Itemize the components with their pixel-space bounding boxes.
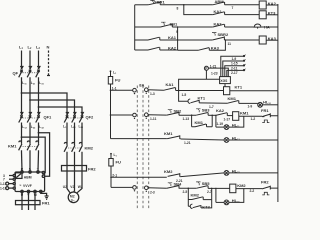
connector pin right row3 (145, 186, 149, 190)
junction on L3 (38, 106, 40, 108)
svg-text:2-17: 2-17 (231, 71, 238, 75)
svg-text:KA1: KA1 (168, 35, 177, 40)
svg-text:VVVF: VVVF (23, 184, 32, 188)
VFD ABM box (15, 172, 45, 192)
svg-text:FR1: FR1 (42, 201, 50, 206)
wire L3 QF1 to KM1 (38, 124, 40, 142)
wire L2 QF1 to KM1 (29, 124, 31, 142)
wire node8 down to row2 (184, 5, 213, 15)
wire FR2 to M2 2 (73, 171, 76, 192)
svg-text:KT1: KT1 (198, 95, 206, 100)
wire row5 node9 to KA3 hold (178, 49, 198, 51)
ground symbol (45, 196, 49, 199)
wire V to FR1 (28, 193, 30, 210)
svg-text:1-3: 1-3 (150, 92, 155, 96)
ABM terminal V (27, 190, 29, 192)
svg-text:SB4: SB4 (174, 182, 183, 187)
wire row4 lead (135, 39, 148, 41)
contactor KM1 pole 1 (19, 141, 22, 152)
contact KA2 (NO) (213, 12, 225, 15)
connector pin right row1 (145, 88, 149, 92)
svg-text:ABM: ABM (24, 176, 32, 180)
junction node 9 (177, 26, 179, 28)
svg-text:KM1: KM1 (8, 144, 17, 149)
panel boundary dashed line 3 (148, 86, 150, 211)
ABM terminal T (37, 171, 39, 173)
thermal contact FR1 (NC) (262, 113, 278, 117)
connector pin left row3 (133, 186, 137, 190)
contact KA2 (NO) (216, 113, 228, 116)
svg-text:1-7: 1-7 (209, 105, 214, 109)
junction left of SB5 (188, 188, 190, 190)
junction on L2 (29, 99, 31, 101)
wire branch feed 2 to QF2 (30, 100, 75, 113)
coil KA2 (259, 1, 266, 9)
svg-text:KM1: KM1 (195, 120, 204, 125)
wire SB4 to SB5 (180, 187, 196, 189)
wire FU2 down (110, 166, 112, 187)
svg-text:KM1: KM1 (164, 131, 173, 136)
svg-text:QF2: QF2 (86, 115, 95, 120)
ABM terminal R (21, 171, 23, 173)
coil KM2 (230, 184, 236, 193)
lamp across KM2 coil (216, 201, 224, 203)
KT3 branch right vertical (201, 200, 212, 208)
svg-text:T: T (37, 168, 39, 172)
wire bell HA to bus (262, 26, 278, 28)
breaker QF2 pole 1 (66, 113, 69, 115)
wire row3 to KA3 contact (172, 26, 213, 28)
wire feed row 1-3 (111, 89, 133, 91)
coil KT1 (224, 87, 230, 95)
svg-text:7: 7 (3, 178, 5, 182)
wire FU1 down (110, 84, 112, 139)
wire branch feed 1 to QF2 (22, 93, 68, 113)
coil KM1 (233, 112, 239, 121)
svg-text:1-17: 1-17 (224, 117, 231, 121)
breaker QF2 pole 2 (73, 113, 76, 115)
svg-text:8: 8 (177, 7, 179, 11)
svg-text:KT1: KT1 (235, 85, 243, 90)
contactor KM1 pole 3 (36, 141, 39, 152)
svg-text:1-19: 1-19 (216, 122, 223, 126)
breaker QF1 linkage (20, 117, 37, 119)
svg-text:W2: W2 (78, 185, 83, 189)
svg-text:≈: ≈ (20, 183, 22, 187)
wire row3 lead (135, 26, 160, 28)
svg-text:FU: FU (115, 78, 120, 83)
wire KM2 to FR2 1 (66, 154, 68, 172)
wire L1 QF1 to KM1 (21, 124, 23, 142)
wire FR2 to M2 3 (77, 171, 82, 193)
wire row4 to SBR2 (160, 39, 213, 41)
panel boundary dashed line 1 (136, 86, 138, 211)
wire row1 to node 8 (163, 4, 213, 6)
svg-text:KA2: KA2 (216, 108, 225, 113)
wire KM1 NC to lamp HL2 (181, 139, 224, 140)
top block left bus (134, 5, 136, 50)
breaker QF linkage (20, 72, 37, 74)
svg-text:FR2: FR2 (261, 180, 269, 185)
wire KM2 coil to FR2 (236, 188, 262, 190)
wire tap L1 to ABM control (22, 137, 46, 173)
svg-text:2-3: 2-3 (150, 190, 155, 194)
contactor KM1 pole 2 (27, 141, 30, 152)
breaker QF1 pole 3 (37, 113, 40, 115)
wire row5 KA2 to node9 (160, 49, 178, 51)
panel boundary dashed line 2 (142, 86, 144, 211)
wire feed row KM2-NC (111, 176, 167, 178)
wire KM2 NC to lamp HL3 (181, 173, 224, 177)
wire tap L3 to ABM control (39, 133, 50, 177)
svg-text:KA1: KA1 (166, 82, 175, 87)
svg-text:SB2: SB2 (174, 108, 183, 113)
alarm bell HA (254, 24, 261, 27)
svg-text:KA2: KA2 (214, 9, 223, 14)
fuse FU1 (108, 77, 112, 85)
wire SB3 to KA2 contact (208, 114, 216, 116)
ABM left terminal 1-19 (13, 187, 15, 189)
breaker QF pole 2 (29, 67, 32, 70)
ABM right terminal R10 (42, 171, 44, 173)
thermal relay FR1 box (16, 201, 41, 205)
wire KA1 to KT1 coil (176, 90, 224, 92)
contact KA2 (NO) (148, 47, 160, 50)
svg-text:SBR2: SBR2 (218, 32, 229, 37)
svg-text:XGS: XGS (220, 79, 228, 83)
wire KM2 to FR2 3 (81, 154, 83, 172)
wire row 1-3 (148, 89, 164, 92)
wire XGS terminal 3 (225, 66, 244, 77)
wire row5 lead (135, 49, 148, 51)
ABM terminal E (40, 190, 42, 192)
wire SBR2 to coil KA3 (225, 39, 259, 41)
pushbutton SB3 (NO) (196, 109, 200, 112)
svg-text:7: 7 (232, 6, 234, 10)
contact KM2 (NC) (168, 173, 181, 177)
ABM terminal W (34, 190, 36, 192)
svg-text:1-9: 1-9 (232, 57, 237, 61)
contactor KM2 linkage (66, 147, 81, 149)
svg-text:N: N (47, 45, 50, 50)
contact ABM (NO) (213, 2, 225, 5)
wire L3 incoming (38, 51, 40, 67)
contact KA3 hold (NO) (198, 48, 209, 51)
wire SB5 to KM2 coil (208, 187, 230, 189)
wire row KM1-NC (166, 138, 169, 140)
svg-text:QF: QF (13, 71, 19, 76)
svg-text:1-2: 1-2 (251, 117, 256, 121)
contact KA1 (NO) (164, 88, 176, 91)
svg-text:1-21: 1-21 (184, 141, 191, 145)
wire branch feed 3 to QF2 (39, 107, 83, 113)
ABM braking resistor sub-box (15, 173, 22, 179)
wire L1 tap2 to FU2 (110, 154, 112, 159)
contactor KM2 pole 1 (64, 143, 67, 154)
svg-text:SB1: SB1 (170, 22, 179, 27)
wire XGS terminal 1 (221, 56, 244, 76)
lamp across KM1 coil (216, 126, 224, 128)
connector pin left row2 (133, 113, 137, 117)
breaker QF pole 3 (37, 67, 40, 70)
svg-text:1-5: 1-5 (182, 93, 187, 97)
right bus (277, 4, 279, 202)
junction 1-5 (178, 90, 180, 92)
svg-text:SB3: SB3 (202, 108, 211, 113)
svg-text:SBR1: SBR1 (154, 0, 165, 4)
KM1 hold contact (NO) (192, 124, 213, 127)
junction node 8 (183, 4, 185, 6)
svg-text:SB5: SB5 (202, 181, 211, 186)
contactor KM2 pole 2 (72, 143, 75, 154)
breaker QF pole 1 (20, 67, 23, 70)
wire XGS terminal 4 (227, 70, 244, 76)
svg-text:1-15: 1-15 (231, 62, 238, 66)
wire row 2-3 (148, 187, 167, 189)
wire KT1 delay to KM1 contact (199, 102, 227, 104)
wire to coil KT3 (225, 14, 260, 16)
svg-text:1-19: 1-19 (0, 187, 7, 191)
thermal contact FR2 (NC) (262, 186, 278, 190)
ABM right terminal T10 (42, 175, 44, 177)
KM2 hold branch right vertical (211, 188, 213, 199)
svg-text:11: 11 (228, 42, 232, 46)
svg-text:1-13: 1-13 (183, 117, 190, 121)
wire feed row KM1-NC (111, 138, 167, 140)
junction row4 right (225, 39, 227, 41)
lamp HL3 (224, 171, 229, 176)
svg-text:KM1: KM1 (240, 111, 249, 116)
fuse FU2 (109, 159, 113, 167)
KT3 delay branch left vertical (187, 200, 189, 207)
node L1 tap 2 (110, 153, 112, 155)
junction row4 (177, 39, 179, 41)
pushbutton SB1 (NO) (161, 22, 165, 25)
svg-text:KM2: KM2 (237, 183, 246, 188)
time contact KT1 (delay NO) (188, 99, 199, 103)
wire KA2 to KM1 coil (227, 115, 232, 117)
wire KM1 aux to lamp HL1 (239, 102, 258, 104)
KM2 hold contact (NO) (188, 197, 211, 200)
wire 1-5 down to KT1 delay (179, 91, 188, 102)
svg-text:KT3: KT3 (202, 205, 210, 210)
contactor KM1 linkage (20, 146, 37, 148)
contact KM1 aux (NO) (227, 101, 239, 104)
coil KT3 (259, 11, 266, 19)
wire L1 incoming (21, 51, 23, 67)
wire QF2 to KM2 pole2 (74, 124, 76, 144)
wire W to FR1 (34, 193, 36, 210)
wire L2 down to QF1 (29, 79, 31, 113)
lamp HL1 (258, 102, 263, 107)
wire L1 tap to FU1 (110, 71, 112, 76)
wire KM1 coil to FR1 (239, 115, 262, 117)
breaker QF1 pole 1 (20, 113, 23, 115)
thermal relay FR2 box (62, 166, 87, 172)
wire P right 1-21 (208, 68, 228, 77)
wire coil KA3 to bus (266, 39, 278, 41)
pushbutton SB2 (NC) (168, 110, 172, 113)
wire N dashed (48, 51, 50, 76)
breaker QF2 pole 3 (81, 113, 84, 115)
ABM terminal U (21, 190, 23, 192)
wire QF2 to KM2 pole3 (81, 124, 83, 144)
wire KM1 to ABM S (29, 152, 31, 171)
pushbutton SBR2 (NC) (212, 33, 216, 36)
junction on L1 (21, 92, 23, 94)
junction left of SB3 (191, 114, 193, 116)
svg-text:2-1: 2-1 (112, 173, 117, 177)
wire SB2 to SB3 (180, 114, 196, 116)
breaker QF2 linkage (66, 117, 81, 119)
pushbutton SBR1 (NC) (150, 0, 154, 3)
svg-text:2-11: 2-11 (231, 66, 238, 70)
wire KM1 to ABM T (37, 152, 40, 171)
svg-text:V2: V2 (70, 185, 74, 189)
connector pin right row2 (145, 113, 149, 117)
lamp HL4 branch right vertical (229, 188, 244, 202)
wire row 1-11 (148, 114, 167, 116)
svg-text:FU: FU (116, 160, 121, 165)
svg-text:2-2: 2-2 (250, 189, 255, 193)
wire L2 incoming (29, 51, 31, 67)
junction right of SB3 (211, 115, 213, 117)
wire coil KA2 to bus (266, 4, 278, 6)
pushbutton SB4 (NC) (168, 183, 172, 186)
ABM left terminal 3 (13, 174, 15, 176)
wire feed row 2-3 (111, 186, 133, 188)
wire lamp HL3 to bus (229, 172, 278, 174)
connector pin left row1 (133, 88, 137, 92)
wire L1 down to QF1 (21, 79, 23, 113)
svg-text:1-23: 1-23 (211, 71, 218, 75)
wire feed row 1-11 (111, 114, 133, 116)
svg-text:FR1: FR1 (261, 108, 269, 113)
wire XGS terminal 2 (223, 61, 244, 77)
svg-text:ABM: ABM (215, 0, 225, 4)
motor M2 (68, 192, 79, 203)
svg-text:2-5: 2-5 (183, 190, 188, 194)
wire U to FR1 (21, 193, 23, 210)
wire coil KT3 to bus (266, 14, 278, 16)
svg-text:1-17: 1-17 (0, 182, 7, 186)
wire L3 down to QF1 (38, 79, 40, 113)
wire KM2 to FR2 2 (74, 154, 76, 172)
KM2 hold branch left vertical (187, 188, 189, 199)
ground wire from E (41, 193, 47, 196)
connector XGS box (220, 77, 231, 84)
wire FR2 to M2 1 (67, 171, 70, 193)
svg-text:KM2: KM2 (85, 146, 94, 151)
svg-text:1-9: 1-9 (248, 104, 253, 108)
breaker QF1 pole 2 (29, 113, 32, 115)
wire P wiper down (205, 70, 207, 79)
svg-text:1-11: 1-11 (150, 117, 157, 121)
svg-text:1-21: 1-21 (210, 64, 217, 68)
wire node 1-5 up to pot line (179, 79, 220, 90)
contact KM1 (NC) (168, 135, 181, 139)
pushbutton SB5 (NO) (196, 182, 200, 185)
ABM terminal S (29, 171, 31, 173)
lamp HL4 branch left vertical (215, 188, 217, 202)
ABM left terminal 7 (13, 178, 15, 180)
wire KA3 hold up to row4 (209, 40, 225, 50)
wire to coil KA2 (225, 4, 260, 6)
node L1 tap 1 (110, 70, 112, 72)
wire to bell HA (225, 26, 254, 28)
svg-text:KM2: KM2 (191, 193, 200, 198)
coil KA3 (259, 36, 266, 44)
svg-text:KM2: KM2 (164, 169, 173, 174)
svg-text:KA3: KA3 (214, 21, 223, 26)
contact KA3 (NO) (213, 24, 225, 27)
wire row1 lead (135, 4, 148, 6)
KM1 hold branch right vertical (211, 115, 213, 127)
svg-text:8A: 8A (139, 83, 144, 88)
potentiometer P (204, 66, 208, 70)
vertical node9 link rows 3-5 (177, 27, 179, 50)
lamp HL2run branch left vertical (215, 116, 217, 128)
wire KT1 coil to bus (230, 90, 278, 92)
svg-text:2-7: 2-7 (207, 190, 212, 194)
wire XGS to KT1 coil (224, 84, 226, 87)
wire lamp HL1 to bus (263, 104, 278, 106)
svg-text:QF1: QF1 (44, 115, 53, 120)
contact KA1 (NO) (148, 37, 160, 40)
ABM left terminal 1-17 (13, 183, 15, 185)
lamp branch right vertical (229, 116, 244, 127)
svg-text:U2: U2 (63, 185, 67, 189)
wire lamp HL2 to bus (229, 139, 278, 141)
junction right of SB5 (211, 188, 213, 190)
contactor KM2 pole 3 (79, 143, 82, 154)
lamp HL2 (224, 138, 229, 143)
svg-text:FR2: FR2 (88, 167, 96, 172)
svg-text:3~: 3~ (71, 199, 75, 203)
KM1 hold branch left vertical (191, 115, 193, 127)
time contact KT3 (delay NO) (190, 204, 201, 208)
wire QF2 to KM2 pole1 (66, 124, 68, 144)
wire KM1 to ABM R (21, 152, 24, 171)
svg-text:KM1: KM1 (228, 96, 237, 101)
